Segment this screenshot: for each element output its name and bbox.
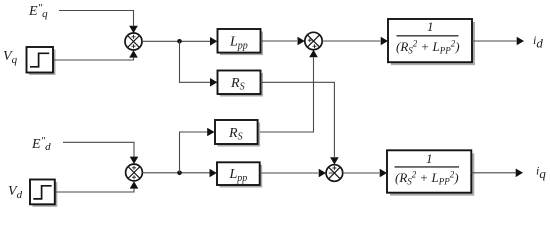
sum junction Sum2 (305, 32, 322, 49)
svg-text:1: 1 (427, 19, 434, 34)
block Rs1 (220, 73, 263, 97)
wire Sum4 to TF2 (343, 172, 380, 174)
svg-text:(RS2 + LPP2): (RS2 + LPP2) (396, 39, 460, 56)
wire Rs1 to Sum4 (down) (261, 82, 335, 157)
sum junction Sum4 (326, 165, 343, 182)
wire Rs2 to Sum2 (up) (258, 58, 314, 133)
wire TF1 to id (472, 40, 517, 42)
step block Vq (29, 50, 56, 76)
wire E''q to Sum1 (59, 11, 134, 26)
wire Sum3 to Lpp2 (142, 172, 210, 174)
block TF1 transfer function (391, 22, 475, 65)
wire junction A down to Rs1 (180, 41, 211, 82)
step block Vd (33, 182, 58, 207)
node junction dot A (177, 39, 182, 44)
sum junction Sum3 (126, 164, 143, 181)
wire junction B up to Rs2 (180, 132, 208, 173)
svg-text:1: 1 (426, 151, 433, 166)
wire E''d to Sum3 (63, 142, 134, 156)
wire Lpp2 to Sum4 (260, 172, 319, 174)
block TF2 transfer function (390, 153, 474, 195)
block Lpp2 (220, 165, 263, 188)
wire Vd step to Sum3 (56, 189, 134, 192)
wire Vq step to Sum1 (54, 58, 134, 60)
wire Sum1 to Lpp1 (142, 40, 211, 42)
sum junction Sum1 (125, 33, 142, 50)
wire Sum2 to TF1 (322, 40, 380, 42)
node junction dot B (177, 171, 182, 176)
svg-text:(RS2 + LPP2): (RS2 + LPP2) (395, 170, 459, 187)
wire Lpp1 to Sum2 (261, 40, 298, 42)
wire TF2 to iq (471, 172, 515, 174)
block Rs2 (218, 123, 261, 147)
block Lpp1 (220, 32, 263, 56)
